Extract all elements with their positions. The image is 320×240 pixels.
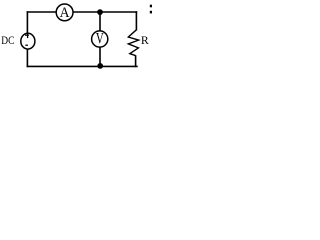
junction node top — [97, 9, 103, 15]
svg-text:A: A — [60, 5, 70, 21]
DC source plus terminal — [25, 33, 29, 39]
wire right vertical bottom — [135, 55, 137, 67]
junction node bottom — [97, 63, 103, 69]
wire left vertical — [26, 11, 28, 67]
wire voltmeter branch top — [99, 12, 101, 31]
wire top horizontal — [27, 11, 138, 13]
DC source U1 circle — [21, 33, 35, 49]
wire right vertical top — [135, 11, 137, 30]
svg-text:V: V — [96, 30, 104, 48]
colon text artifact top right — [150, 5, 152, 14]
wire bottom horizontal — [27, 65, 138, 67]
svg-text:R: R — [141, 33, 149, 47]
DC source minus terminal — [25, 44, 28, 46]
wire voltmeter branch bottom — [99, 48, 101, 67]
resistor R zigzag — [128, 30, 138, 56]
ammeter A circle — [56, 4, 73, 21]
voltmeter V circle — [92, 31, 108, 47]
svg-text:DC: DC — [1, 34, 14, 47]
